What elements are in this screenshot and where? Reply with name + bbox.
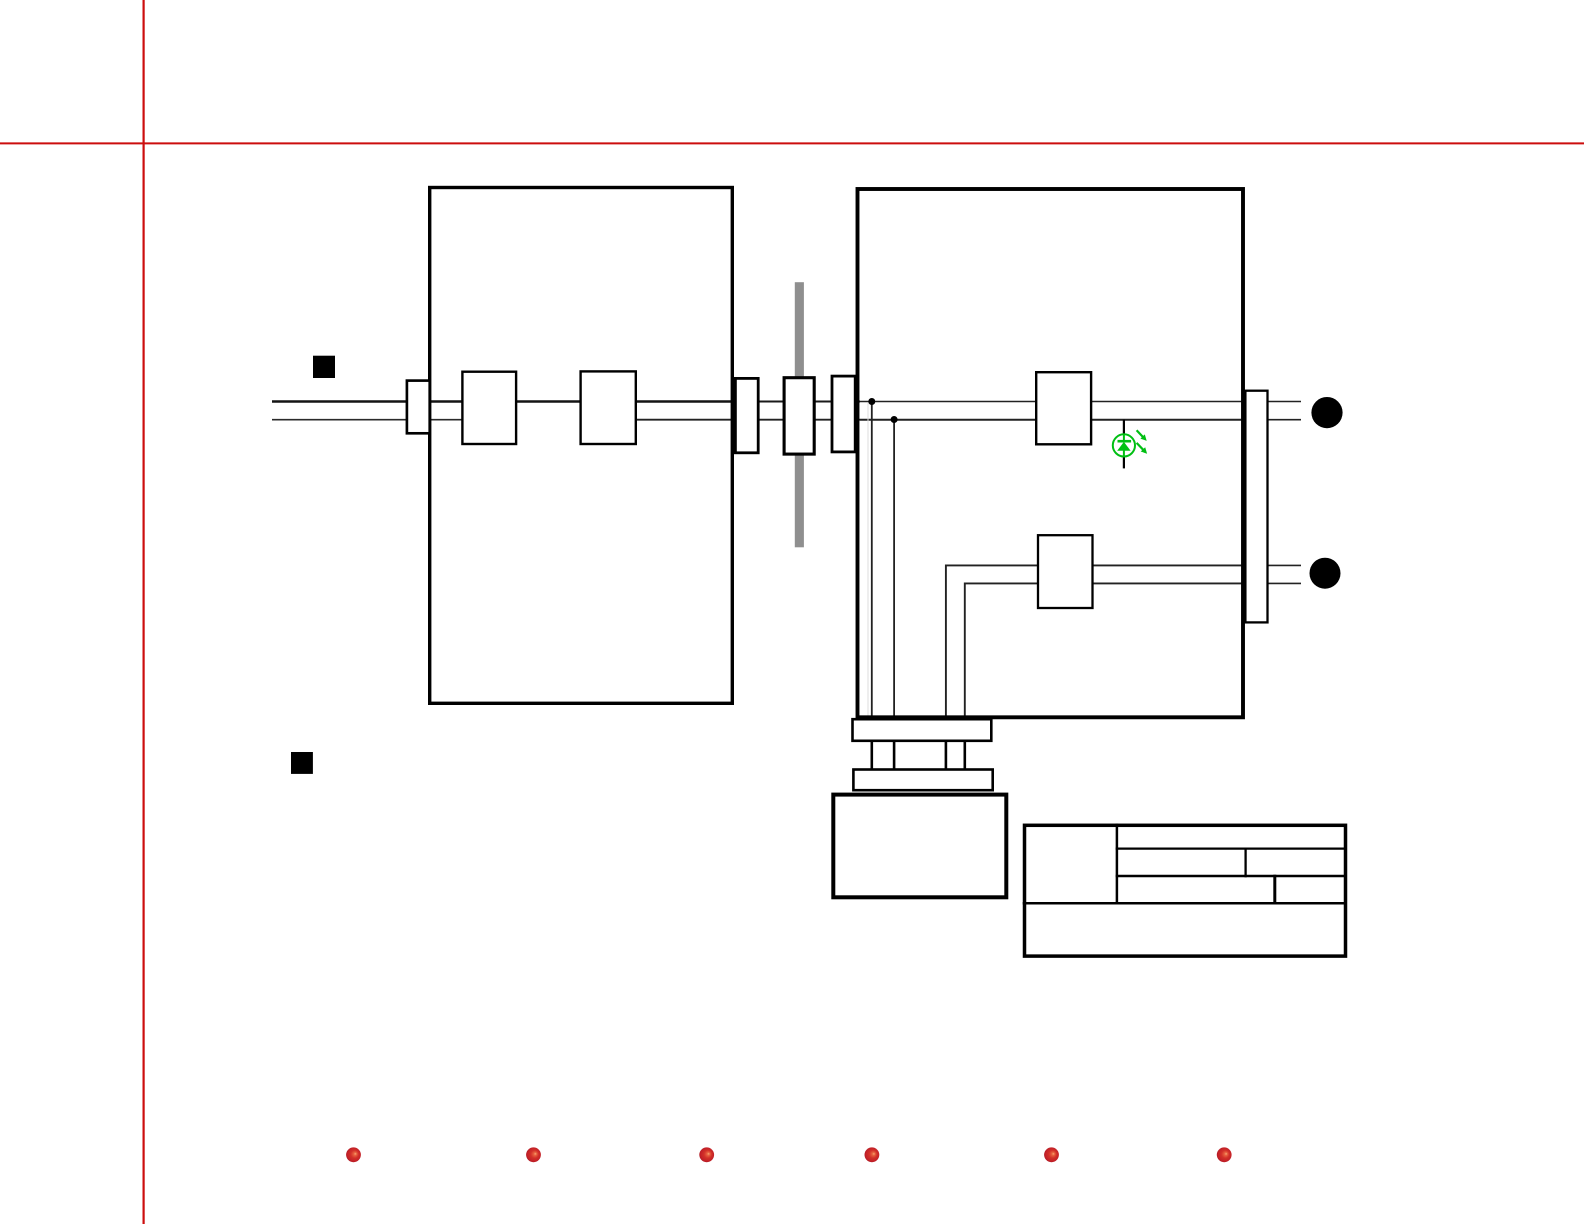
- coupler B on shaft: [784, 378, 814, 454]
- node B junction dot: [891, 416, 898, 423]
- terminal strip X1: [853, 719, 992, 741]
- wire: top conductor from input to right connector: [272, 400, 734, 403]
- enclosure box right: [858, 189, 1244, 717]
- LED D1 lead upper: [1123, 420, 1125, 434]
- terminal ball bottom: [1310, 558, 1341, 589]
- pin 2: [893, 741, 896, 769]
- terminal strip X2: [853, 770, 992, 791]
- node A junction dot: [868, 398, 875, 405]
- LED D1 lead lower: [1123, 457, 1125, 469]
- pin 3: [945, 741, 948, 769]
- LED light arrow 2: [1137, 443, 1144, 450]
- wire: bottom conductor right segment: [636, 419, 860, 421]
- wire: vertical drop from node A: [871, 402, 873, 770]
- red sphere 3: [699, 1147, 714, 1162]
- pin 1: [870, 741, 873, 769]
- wire: elbow verticals: [945, 565, 947, 770]
- index square 2: [291, 752, 313, 774]
- red sphere 5: [1044, 1147, 1059, 1162]
- faint guide line: [867, 403, 869, 716]
- coupler A: [735, 378, 758, 452]
- index square 1: [313, 356, 335, 378]
- LED D1 body: [1113, 434, 1135, 456]
- red sphere 4: [865, 1147, 880, 1162]
- junction box: [833, 795, 1006, 898]
- wire: bottom conductor left segment: [272, 419, 462, 421]
- coupler C on right box wall: [832, 376, 855, 452]
- wire: vertical drop from node B: [893, 420, 895, 769]
- connector J1: [1245, 391, 1267, 623]
- LED D1 triangle: [1117, 442, 1130, 451]
- LED light arrow 1: [1137, 430, 1144, 437]
- module U4: [1038, 535, 1093, 608]
- module U3: [1036, 372, 1091, 444]
- title block frame: [1023, 824, 1347, 957]
- red sphere 1: [346, 1147, 361, 1162]
- red sphere 2: [526, 1147, 541, 1162]
- wire: lower pair to motor connector: [946, 564, 1246, 566]
- red datum horizontal line: [0, 142, 1584, 144]
- terminal ball top: [1311, 397, 1342, 428]
- red datum vertical line: [143, 0, 145, 1224]
- wire: output stubs right of connector J1: [1267, 401, 1301, 403]
- filter block FL1: [462, 372, 516, 444]
- enclosure box left: [430, 188, 733, 704]
- filter block FL2: [581, 371, 636, 444]
- red sphere 6: [1217, 1147, 1232, 1162]
- pin 4: [963, 741, 966, 769]
- shaft coupling gray bar: [795, 282, 804, 547]
- bulkhead fitting on left box wall: [407, 381, 430, 434]
